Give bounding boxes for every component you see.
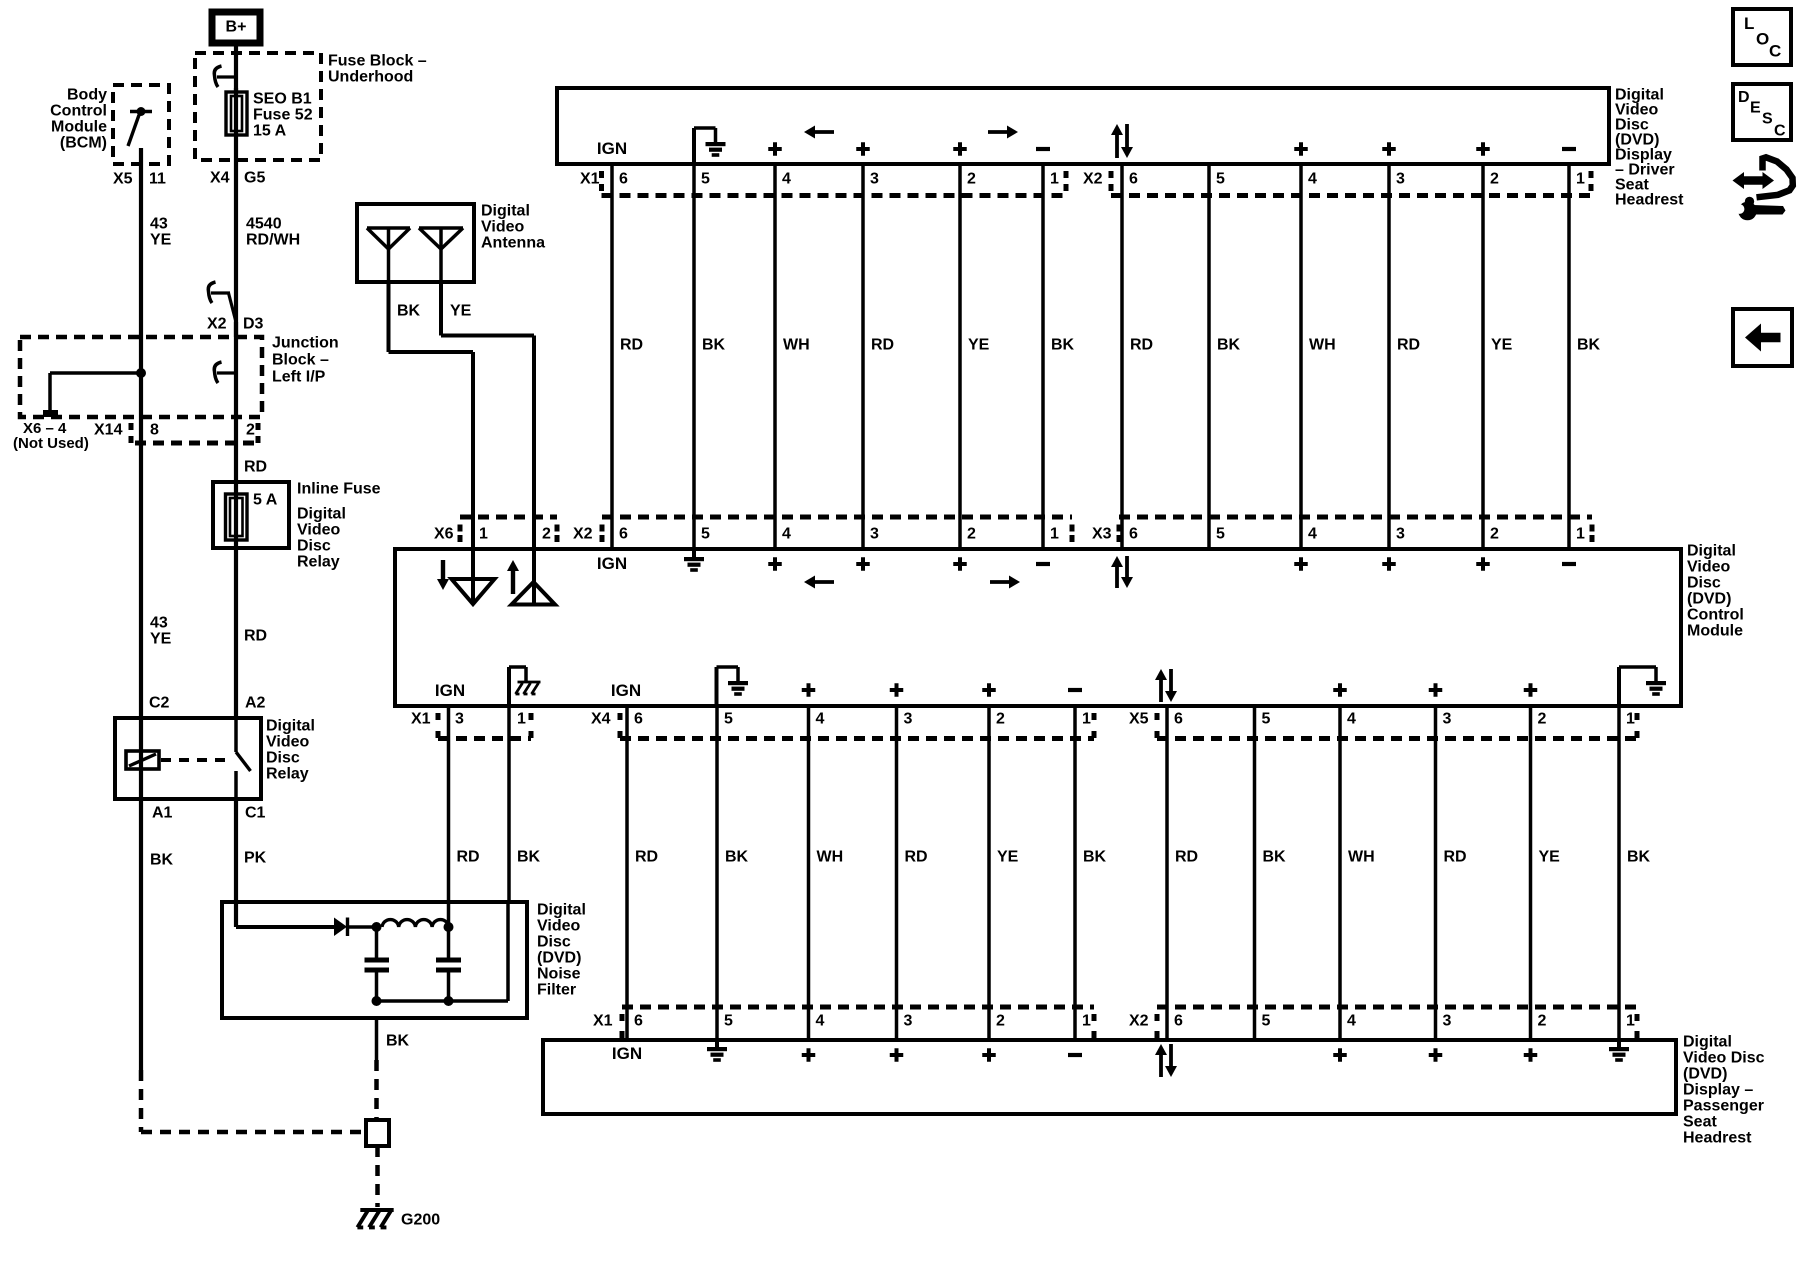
svg-text:Fuse 52: Fuse 52: [253, 107, 313, 124]
svg-text:1: 1: [1050, 171, 1059, 188]
svg-text:X2: X2: [207, 316, 227, 333]
left arrow control module: [810, 580, 834, 584]
svg-text:WH: WH: [1348, 849, 1375, 866]
svg-text:Disc: Disc: [1687, 575, 1721, 592]
svg-text:1: 1: [1576, 526, 1585, 543]
svg-text:PK: PK: [244, 850, 267, 867]
svg-text:Relay: Relay: [297, 554, 340, 571]
wire through inline fuse: [234, 482, 238, 548]
passenger display ground X2: [1617, 1041, 1621, 1047]
svg-text:6: 6: [1129, 526, 1138, 543]
svg-text:Digital: Digital: [1683, 1034, 1732, 1051]
svg-text:1: 1: [1626, 1013, 1635, 1030]
relay coil: [126, 751, 159, 769]
wire RD into filter: [447, 902, 451, 927]
capacitor C1: [375, 927, 379, 958]
svg-text:3: 3: [1396, 171, 1405, 188]
junction node in junction block: [136, 368, 146, 378]
svg-text:BK: BK: [386, 1033, 410, 1050]
svg-text:5 A: 5 A: [253, 492, 278, 509]
svg-text:BK: BK: [1083, 849, 1107, 866]
relay coil wire through: [139, 718, 143, 799]
svg-text:(BCM): (BCM): [60, 135, 107, 152]
svg-text:Relay: Relay: [266, 766, 309, 783]
up/down arrows driver display: [1115, 130, 1119, 158]
wire fuse to junction block, net 4540 RD/WH: [234, 88, 238, 337]
wire junction block to inline fuse, net RD: [234, 417, 238, 482]
svg-text:Control: Control: [50, 103, 107, 120]
svg-text:(Not Used): (Not Used): [13, 435, 89, 452]
svg-text:X3: X3: [1092, 526, 1112, 543]
terminal hook in junction block: [217, 371, 236, 374]
wire BK into filter: [506, 902, 510, 1001]
svg-text:Disc: Disc: [537, 934, 571, 951]
svg-text:3: 3: [1443, 711, 1452, 728]
svg-text:2: 2: [246, 422, 255, 439]
svg-text:3: 3: [1396, 526, 1405, 543]
Body Control Module (BCM) dashed box: [113, 85, 169, 164]
wire through junction block net 43 YE: [139, 337, 143, 417]
svg-text:IGN: IGN: [611, 681, 641, 700]
svg-text:Module: Module: [1687, 623, 1743, 640]
antenna element 1: [367, 226, 410, 230]
terminal hook in fuse block: [217, 75, 236, 78]
svg-text:Digital: Digital: [297, 506, 346, 523]
svg-text:X2: X2: [1083, 171, 1103, 188]
wire inline fuse to relay, net RD: [234, 548, 238, 718]
LOC icon box: [1733, 9, 1791, 65]
inline ground connector: [366, 1120, 389, 1146]
svg-text:A2: A2: [245, 695, 266, 712]
polarity symbols control module top: [768, 557, 782, 571]
control module antenna symbol down: [471, 549, 475, 603]
svg-text:6: 6: [634, 711, 643, 728]
Inline Fuse box: [213, 482, 289, 548]
svg-text:C2: C2: [149, 695, 170, 712]
svg-text:2: 2: [996, 1013, 1005, 1030]
svg-text:3: 3: [455, 711, 464, 728]
relay switch blade: [234, 718, 238, 752]
control module antenna symbol up: [532, 549, 536, 604]
svg-text:BK: BK: [1263, 849, 1287, 866]
control module antenna input down arrow: [441, 560, 445, 584]
capacitor C2: [447, 927, 451, 958]
svg-text:RD: RD: [620, 337, 643, 354]
svg-text:Underhood: Underhood: [328, 69, 413, 86]
svg-text:6: 6: [1174, 1013, 1183, 1030]
back arrow icon box: [1733, 309, 1792, 366]
svg-text:WH: WH: [817, 849, 844, 866]
control module ground top: [692, 549, 696, 557]
svg-text:4: 4: [782, 526, 791, 543]
svg-text:X4: X4: [210, 170, 230, 187]
svg-text:5: 5: [724, 1013, 733, 1030]
communication-wrench icon: [1733, 172, 1775, 189]
svg-text:X4: X4: [591, 711, 611, 728]
wires control module to passenger display: [625, 704, 629, 1040]
Digital Video Disc Relay box: [115, 718, 261, 799]
svg-text:Junction: Junction: [272, 335, 339, 352]
wires control module to noise filter: [447, 706, 451, 902]
control module chassis ground bottom: [507, 667, 511, 704]
svg-text:6: 6: [1174, 711, 1183, 728]
svg-text:5: 5: [1216, 526, 1225, 543]
antenna element 2: [419, 226, 463, 230]
svg-text:Disc: Disc: [297, 538, 331, 555]
svg-text:8: 8: [150, 422, 159, 439]
svg-text:BK: BK: [1217, 337, 1241, 354]
polarity + symbols driver display X2 side: [1294, 142, 1308, 156]
svg-text:(DVD): (DVD): [1687, 591, 1731, 608]
svg-text:3: 3: [1443, 1013, 1452, 1030]
svg-text:YE: YE: [150, 232, 172, 249]
wire relay C1 to noise filter, net PK: [234, 799, 238, 902]
svg-text:Antenna: Antenna: [481, 235, 545, 252]
svg-text:WH: WH: [783, 337, 810, 354]
svg-text:X1: X1: [411, 711, 431, 728]
control module ground bottom right: [1617, 667, 1621, 704]
Digital Video Disc (DVD) Noise Filter box: [222, 902, 527, 1018]
svg-text:Disc: Disc: [266, 750, 300, 767]
svg-text:L: L: [1744, 14, 1754, 33]
polarity symbols passenger display: [802, 1048, 816, 1062]
svg-text:X14: X14: [94, 422, 123, 439]
Digital Video Disc (DVD) Control Module box: [395, 549, 1681, 706]
svg-text:5: 5: [1262, 711, 1271, 728]
svg-text:5: 5: [701, 526, 710, 543]
svg-text:Digital: Digital: [481, 203, 530, 220]
svg-text:BK: BK: [1627, 849, 1651, 866]
svg-text:S: S: [1762, 111, 1773, 128]
svg-text:BK: BK: [397, 303, 421, 320]
BCM internal switch: [130, 110, 152, 113]
svg-text:4: 4: [816, 1013, 825, 1030]
svg-text:2: 2: [967, 526, 976, 543]
svg-text:X2: X2: [573, 526, 593, 543]
svg-text:Digital: Digital: [537, 902, 586, 919]
svg-text:3: 3: [870, 526, 879, 543]
svg-text:Digital: Digital: [266, 718, 315, 735]
svg-text:BK: BK: [150, 852, 174, 869]
svg-text:X2: X2: [1129, 1013, 1149, 1030]
svg-text:Headrest: Headrest: [1615, 192, 1684, 209]
wire BCM output, net 43 YE: [139, 148, 143, 337]
svg-text:2: 2: [1490, 526, 1499, 543]
svg-text:4: 4: [1308, 171, 1317, 188]
passenger display ground X1: [715, 1041, 719, 1047]
svg-text:5: 5: [724, 711, 733, 728]
left arrow symbol: [810, 130, 834, 134]
svg-text:4: 4: [1308, 526, 1317, 543]
wire through junction block net RD: [234, 322, 238, 417]
wires driver display to control module: [610, 164, 614, 548]
svg-text:Module: Module: [51, 119, 107, 136]
Junction Block - Left I/P dashed box: [20, 337, 262, 417]
svg-text:5: 5: [1262, 1013, 1271, 1030]
svg-text:RD: RD: [244, 628, 267, 645]
svg-text:Fuse Block –: Fuse Block –: [328, 53, 427, 70]
svg-text:C1: C1: [245, 805, 266, 822]
wire junction block to relay, net 43 YE: [139, 417, 143, 718]
node filter B: [444, 922, 454, 932]
antenna lead BK: [387, 282, 391, 352]
svg-text:E: E: [1750, 100, 1761, 117]
filter ground bus: [377, 999, 509, 1003]
svg-text:YE: YE: [997, 849, 1019, 866]
dashed wire to G200: [375, 1146, 380, 1207]
svg-text:(DVD): (DVD): [1683, 1066, 1727, 1083]
relay actuating dashed link: [161, 758, 232, 762]
right arrow symbol: [988, 130, 1012, 134]
svg-text:Passenger: Passenger: [1683, 1098, 1764, 1115]
svg-text:Video: Video: [481, 219, 525, 236]
svg-text:C: C: [1774, 123, 1786, 140]
wire B+ to fuse block: [234, 46, 238, 92]
filter output wire BK: [375, 1018, 379, 1060]
polarity symbols control module bottom: [802, 683, 816, 697]
svg-text:2: 2: [1538, 1013, 1547, 1030]
svg-text:Display –: Display –: [1683, 1082, 1753, 1099]
svg-text:RD: RD: [1175, 849, 1198, 866]
svg-text:2: 2: [1538, 711, 1547, 728]
svg-text:1: 1: [1082, 711, 1091, 728]
svg-text:X5: X5: [113, 171, 133, 188]
svg-text:D: D: [1738, 89, 1750, 106]
svg-text:6: 6: [1129, 171, 1138, 188]
Digital Video Antenna box: [357, 204, 474, 282]
svg-text:X5: X5: [1129, 711, 1149, 728]
svg-text:Video Disc: Video Disc: [1683, 1050, 1765, 1067]
svg-text:6: 6: [619, 526, 628, 543]
svg-text:Left I/P: Left I/P: [272, 369, 326, 386]
svg-text:RD: RD: [244, 459, 267, 476]
svg-text:1: 1: [1576, 171, 1585, 188]
svg-text:RD: RD: [1130, 337, 1153, 354]
svg-text:D3: D3: [243, 316, 264, 333]
svg-text:11: 11: [149, 171, 166, 188]
svg-text:3: 3: [870, 171, 879, 188]
svg-text:2: 2: [996, 711, 1005, 728]
svg-text:A1: A1: [152, 805, 173, 822]
wire junction to X6-4 stub: [50, 371, 141, 375]
inline fuse element: [226, 494, 248, 540]
svg-text:Video: Video: [297, 522, 341, 539]
svg-text:Video: Video: [266, 734, 310, 751]
up/down arrows passenger display: [1159, 1050, 1163, 1077]
svg-text:Headrest: Headrest: [1683, 1130, 1752, 1147]
svg-text:5: 5: [701, 171, 710, 188]
svg-text:1: 1: [1050, 526, 1059, 543]
svg-text:43: 43: [150, 615, 168, 632]
svg-text:WH: WH: [1309, 337, 1336, 354]
polarity - symbol driver display: [1036, 147, 1050, 151]
diode D1: [334, 918, 347, 937]
inductor L1: [382, 920, 449, 927]
svg-text:2: 2: [542, 526, 551, 543]
svg-text:YE: YE: [1491, 337, 1513, 354]
up/down arrows control module top: [1115, 562, 1119, 588]
svg-text:Filter: Filter: [537, 982, 576, 999]
svg-text:2: 2: [967, 171, 976, 188]
svg-text:Noise: Noise: [537, 966, 581, 983]
antenna lead YE: [439, 282, 443, 336]
svg-text:1: 1: [479, 526, 488, 543]
svg-text:Digital: Digital: [1687, 543, 1736, 560]
polarity - symbol driver display X2 side: [1562, 147, 1576, 151]
svg-text:IGN: IGN: [612, 1044, 642, 1063]
Digital Video Disc (DVD) Display - Passenger Seat Headrest box: [543, 1040, 1676, 1114]
svg-text:Seat: Seat: [1683, 1114, 1717, 1131]
svg-text:RD: RD: [457, 849, 480, 866]
DESC icon box: [1733, 84, 1791, 140]
svg-text:YE: YE: [968, 337, 990, 354]
svg-text:4540: 4540: [246, 216, 282, 233]
svg-text:3: 3: [904, 711, 913, 728]
polarity + symbols driver display: [768, 142, 782, 156]
svg-text:3: 3: [904, 1013, 913, 1030]
driver display internal ground: [692, 128, 696, 164]
svg-text:BK: BK: [1577, 337, 1601, 354]
svg-text:4: 4: [782, 171, 791, 188]
svg-text:B+: B+: [226, 19, 247, 36]
control module ground bottom X4: [715, 667, 719, 704]
svg-text:BK: BK: [517, 849, 541, 866]
Fuse Block - Underhood dashed box: [195, 53, 321, 160]
svg-text:IGN: IGN: [435, 681, 465, 700]
fuse SEO B1 Fuse 52 15 A: [226, 92, 247, 135]
svg-text:43: 43: [150, 216, 168, 233]
svg-text:1: 1: [1082, 1013, 1091, 1030]
svg-text:4: 4: [816, 711, 825, 728]
svg-text:G5: G5: [244, 170, 265, 187]
svg-text:4: 4: [1347, 711, 1356, 728]
svg-text:15 A: 15 A: [253, 123, 287, 140]
svg-text:O: O: [1756, 30, 1769, 49]
svg-text:SEO B1: SEO B1: [253, 91, 312, 108]
svg-text:1: 1: [517, 711, 526, 728]
control module antenna output up arrow: [511, 566, 515, 594]
up/down arrows control module bottom: [1159, 675, 1163, 702]
svg-text:Video: Video: [1687, 559, 1731, 576]
svg-text:IGN: IGN: [597, 139, 627, 158]
svg-text:6: 6: [619, 171, 628, 188]
battery feed B+ symbol: [212, 12, 260, 43]
svg-text:6: 6: [634, 1013, 643, 1030]
svg-text:G200: G200: [401, 1212, 440, 1229]
svg-text:Block –: Block –: [272, 352, 329, 369]
svg-text:BK: BK: [725, 849, 749, 866]
relay switch contact: [234, 771, 238, 799]
svg-text:RD: RD: [1397, 337, 1420, 354]
svg-text:YE: YE: [150, 631, 172, 648]
filter input wire: [234, 902, 238, 927]
wire relay A1 down, net BK: [139, 799, 143, 1070]
dashed wire to ground connector: [374, 1060, 379, 1120]
svg-text:RD: RD: [905, 849, 928, 866]
Digital Video Disc (DVD) Display - Driver Seat Headrest box: [557, 88, 1609, 164]
svg-text:Body: Body: [67, 87, 107, 104]
ground G200: [357, 1210, 393, 1227]
svg-text:YE: YE: [450, 303, 472, 320]
svg-text:Video: Video: [537, 918, 581, 935]
svg-text:BK: BK: [1051, 337, 1075, 354]
svg-text:BK: BK: [702, 337, 726, 354]
dashed ground run from relay BK: [139, 1070, 144, 1132]
node filter A: [372, 922, 382, 932]
right arrow control module: [990, 580, 1014, 584]
svg-text:Inline Fuse: Inline Fuse: [297, 481, 381, 498]
svg-text:X1: X1: [580, 171, 600, 188]
svg-text:RD: RD: [635, 849, 658, 866]
svg-text:2: 2: [1490, 171, 1499, 188]
svg-text:X6: X6: [434, 526, 454, 543]
svg-text:1: 1: [1626, 711, 1635, 728]
svg-text:RD: RD: [871, 337, 894, 354]
svg-text:YE: YE: [1539, 849, 1561, 866]
connector dashed line X14: [135, 441, 255, 446]
svg-text:IGN: IGN: [597, 554, 627, 573]
svg-text:5: 5: [1216, 171, 1225, 188]
svg-text:C: C: [1769, 42, 1781, 61]
svg-text:RD/WH: RD/WH: [246, 232, 300, 249]
svg-text:(DVD): (DVD): [537, 950, 581, 967]
svg-text:4: 4: [1347, 1013, 1356, 1030]
svg-text:Control: Control: [1687, 607, 1744, 624]
svg-text:RD: RD: [1444, 849, 1467, 866]
svg-text:X1: X1: [593, 1013, 613, 1030]
terminal hook and lead-in above junction block: [211, 291, 230, 294]
